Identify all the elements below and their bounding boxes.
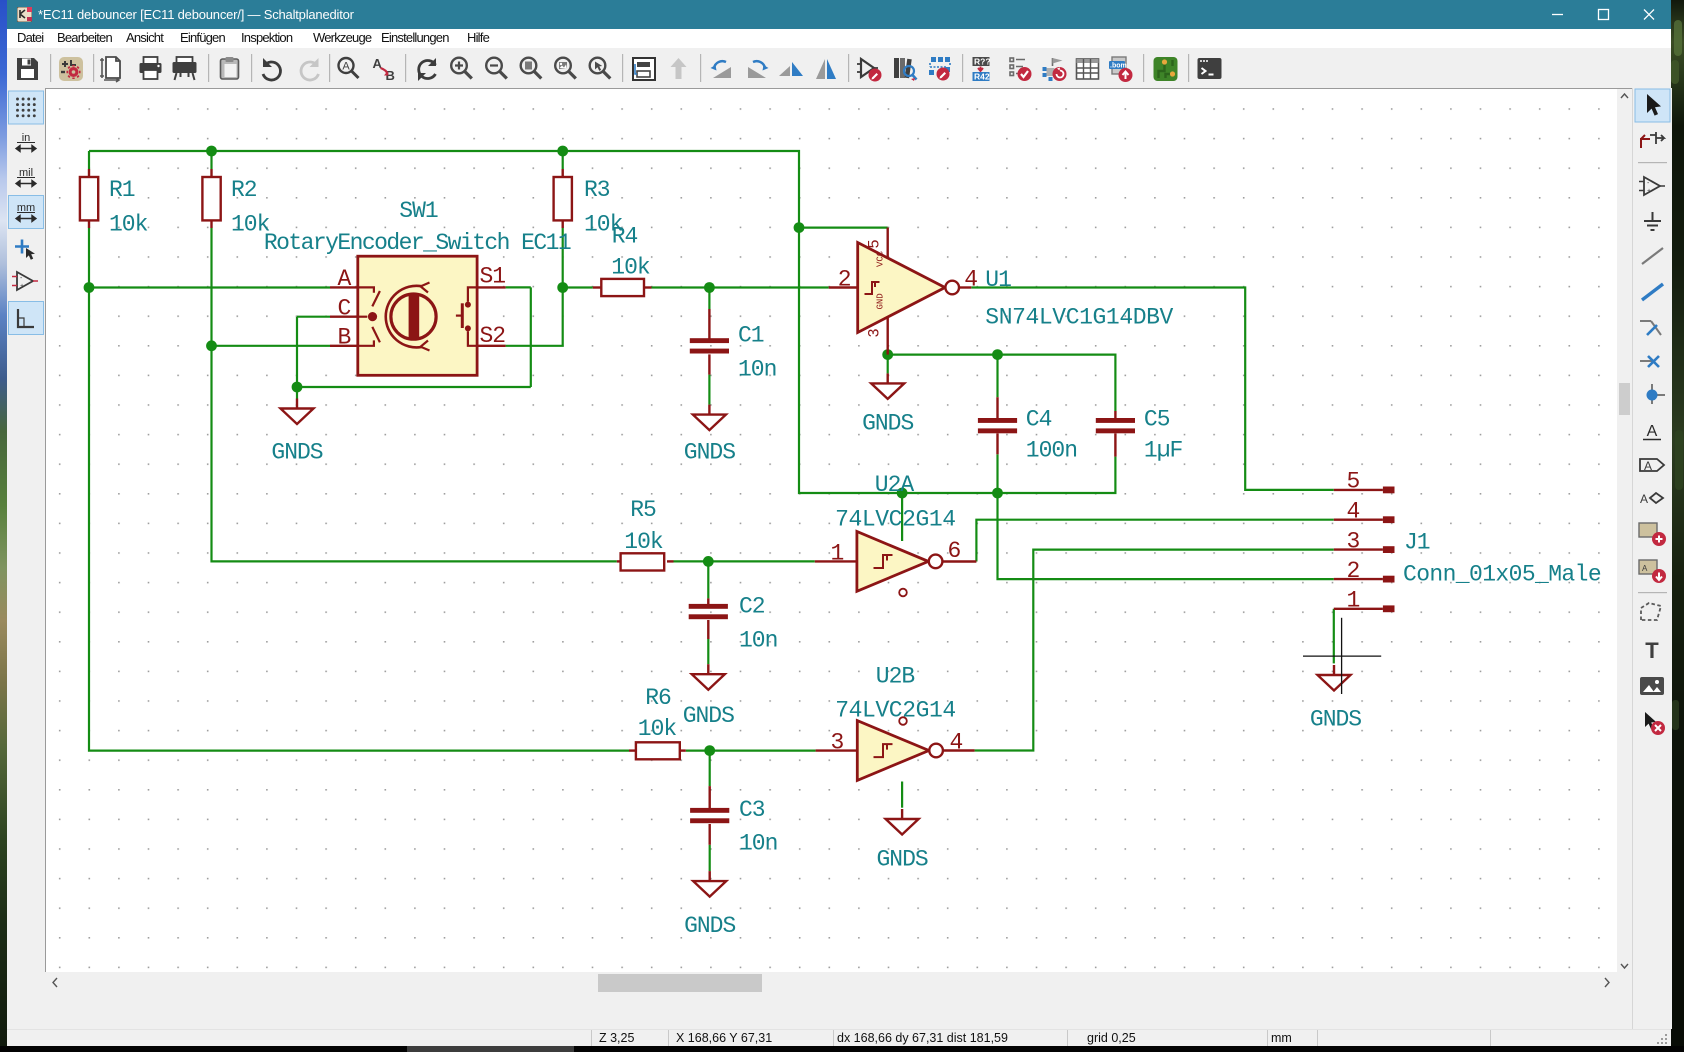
svg-text:+: +	[20, 283, 24, 290]
svg-text:A: A	[1640, 492, 1648, 506]
svg-text:GNDS: GNDS	[684, 913, 735, 939]
svg-text:GNDS: GNDS	[862, 411, 913, 437]
svg-text:S2: S2	[480, 323, 506, 349]
svg-text:SN74LVC1G14DBV: SN74LVC1G14DBV	[985, 305, 1173, 331]
svg-text:GNDS: GNDS	[1310, 707, 1361, 733]
svg-text:4: 4	[1347, 499, 1360, 525]
svg-text:74LVC2G14: 74LVC2G14	[835, 698, 956, 724]
svg-text:R2: R2	[231, 177, 257, 203]
svg-text:10k: 10k	[638, 716, 677, 742]
svg-text:3: 3	[831, 730, 844, 756]
svg-text:A: A	[342, 61, 350, 73]
svg-text:GNDS: GNDS	[271, 440, 322, 466]
svg-text:3: 3	[866, 329, 884, 338]
svg-text:10n: 10n	[738, 357, 776, 383]
svg-text:+: +	[1647, 188, 1651, 195]
svg-text:10k: 10k	[109, 212, 148, 238]
svg-text:A: A	[338, 266, 352, 292]
svg-text:R5: R5	[630, 497, 656, 523]
svg-text:GNDS: GNDS	[876, 847, 927, 873]
svg-text:C4: C4	[1026, 407, 1052, 433]
svg-text:R6: R6	[645, 685, 671, 711]
svg-text:2: 2	[1347, 558, 1360, 584]
svg-text:3: 3	[1347, 528, 1360, 554]
svg-text:Conn_01x05_Male: Conn_01x05_Male	[1403, 562, 1601, 588]
svg-text:C2: C2	[739, 594, 765, 620]
svg-text:SW1: SW1	[399, 198, 438, 224]
svg-text:C: C	[338, 296, 351, 322]
svg-text:1µF: 1µF	[1144, 438, 1183, 464]
svg-text:R42: R42	[974, 72, 990, 82]
svg-text:VCC: VCC	[876, 250, 886, 267]
svg-text:1: 1	[831, 541, 844, 567]
svg-text:1: 1	[1347, 588, 1360, 614]
svg-text:U2B: U2B	[876, 664, 915, 690]
svg-text:GNDS: GNDS	[683, 703, 734, 729]
svg-text:RotaryEncoder_Switch EC11: RotaryEncoder_Switch EC11	[264, 230, 571, 256]
svg-text:2: 2	[838, 267, 851, 293]
svg-text:C1: C1	[738, 323, 764, 349]
svg-text:5: 5	[866, 240, 884, 249]
svg-text:U1: U1	[985, 267, 1011, 293]
svg-text:S1: S1	[480, 264, 506, 290]
svg-text:B: B	[338, 325, 351, 351]
svg-text:A: A	[1644, 459, 1652, 473]
svg-text:10k: 10k	[611, 255, 650, 281]
svg-text:10k: 10k	[624, 529, 663, 555]
svg-text:J1: J1	[1404, 530, 1430, 556]
svg-text:4: 4	[950, 730, 963, 756]
svg-text:R3: R3	[584, 177, 610, 203]
svg-text:74LVC2G14: 74LVC2G14	[835, 507, 956, 533]
svg-text:T: T	[1645, 638, 1659, 663]
svg-text:R??: R??	[974, 57, 991, 67]
svg-text:10n: 10n	[739, 831, 777, 857]
svg-text:GNDS: GNDS	[684, 440, 735, 466]
svg-text:10n: 10n	[739, 628, 777, 654]
svg-text:6: 6	[948, 538, 961, 564]
svg-text:U2A: U2A	[875, 472, 915, 498]
svg-text:C3: C3	[739, 797, 765, 823]
svg-text:R1: R1	[109, 177, 135, 203]
svg-text:A: A	[1647, 423, 1658, 440]
svg-text:A: A	[1642, 564, 1648, 573]
svg-text:5: 5	[1347, 469, 1360, 495]
svg-text:100n: 100n	[1026, 438, 1077, 464]
svg-text:R4: R4	[612, 224, 638, 250]
svg-text:4: 4	[964, 267, 977, 293]
svg-text:C5: C5	[1144, 407, 1170, 433]
svg-text:GND: GND	[876, 293, 886, 309]
